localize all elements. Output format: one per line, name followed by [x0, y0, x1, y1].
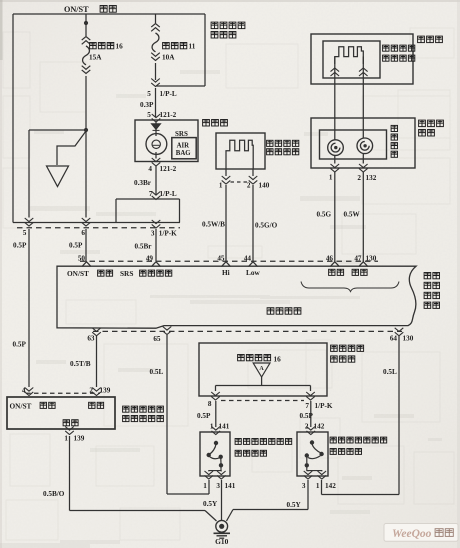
svg-text:5: 5 — [147, 90, 151, 98]
svg-text:121-2: 121-2 — [160, 111, 177, 119]
svg-text:0.5P: 0.5P — [300, 412, 314, 420]
svg-text:1: 1 — [210, 422, 214, 430]
svg-text:1: 1 — [316, 482, 320, 490]
svg-text:64: 64 — [390, 334, 398, 342]
svg-text:2: 2 — [357, 174, 361, 182]
svg-text:142: 142 — [325, 482, 336, 490]
svg-text:1: 1 — [64, 434, 68, 442]
svg-text:16: 16 — [116, 43, 124, 51]
svg-text:132: 132 — [366, 174, 377, 182]
svg-text:65: 65 — [153, 335, 161, 343]
svg-text:16: 16 — [274, 355, 282, 363]
svg-text:A: A — [259, 366, 264, 372]
svg-text:3: 3 — [302, 482, 306, 490]
svg-text:15A: 15A — [89, 54, 102, 62]
svg-text:4: 4 — [22, 387, 26, 395]
svg-text:1: 1 — [203, 482, 207, 490]
svg-text:121-2: 121-2 — [160, 165, 177, 173]
svg-text:6: 6 — [81, 229, 85, 237]
svg-text:0.5P: 0.5P — [69, 242, 83, 250]
svg-text:0.5P: 0.5P — [197, 412, 211, 420]
svg-text:8: 8 — [208, 400, 212, 408]
svg-text:2: 2 — [305, 422, 309, 430]
svg-text:0.5B/O: 0.5B/O — [43, 490, 65, 498]
svg-text:1: 1 — [329, 174, 333, 182]
svg-text:WeeQoo: WeeQoo — [392, 528, 432, 540]
svg-text:140: 140 — [259, 181, 270, 189]
svg-text:11: 11 — [189, 43, 196, 51]
svg-text:SRS: SRS — [175, 130, 188, 138]
svg-text:Low: Low — [246, 268, 261, 277]
svg-text:1/P-L: 1/P-L — [160, 90, 177, 98]
svg-text:2: 2 — [247, 181, 251, 189]
svg-text:141: 141 — [225, 482, 236, 490]
svg-text:0.5Y: 0.5Y — [287, 501, 302, 509]
svg-text:2: 2 — [89, 387, 93, 395]
svg-text:49: 49 — [146, 255, 154, 263]
svg-text:G10: G10 — [215, 537, 228, 546]
svg-text:0.5P: 0.5P — [13, 242, 27, 250]
svg-text:3: 3 — [216, 482, 220, 490]
svg-text:50: 50 — [78, 255, 86, 263]
svg-text:142: 142 — [314, 422, 325, 430]
svg-text:7: 7 — [305, 402, 309, 410]
svg-text:44: 44 — [244, 255, 252, 263]
svg-text:SRS: SRS — [120, 269, 133, 278]
svg-text:ON/ST: ON/ST — [64, 5, 89, 14]
svg-text:0.5Y: 0.5Y — [203, 500, 218, 508]
svg-text:1/P-K: 1/P-K — [159, 229, 177, 237]
svg-text:0.3P: 0.3P — [140, 101, 154, 109]
svg-text:0.5W: 0.5W — [344, 211, 361, 219]
svg-text:4: 4 — [148, 165, 152, 173]
svg-text:141: 141 — [219, 422, 230, 430]
svg-text:0.5P: 0.5P — [13, 340, 27, 348]
svg-text:0.3Br: 0.3Br — [134, 179, 152, 187]
svg-text:139: 139 — [100, 387, 111, 395]
svg-text:0.5Br: 0.5Br — [135, 243, 153, 251]
svg-text:3: 3 — [151, 229, 155, 237]
svg-text:1: 1 — [219, 181, 223, 189]
svg-text:1/P-K: 1/P-K — [315, 402, 333, 410]
svg-text:AIR: AIR — [177, 142, 190, 149]
svg-text:0.5G/O: 0.5G/O — [255, 222, 278, 230]
svg-text:7: 7 — [149, 190, 153, 198]
svg-text:47: 47 — [354, 255, 362, 263]
svg-text:5: 5 — [147, 111, 151, 119]
svg-text:5: 5 — [23, 229, 27, 237]
svg-text:0.5L: 0.5L — [383, 368, 397, 376]
svg-text:139: 139 — [74, 434, 85, 442]
svg-text:ON/ST: ON/ST — [67, 269, 89, 278]
svg-text:130: 130 — [403, 334, 414, 342]
svg-text:0.5L: 0.5L — [150, 368, 164, 376]
svg-text:0.5W/B: 0.5W/B — [202, 221, 225, 229]
svg-text:10A: 10A — [162, 54, 175, 62]
svg-text:46: 46 — [326, 255, 334, 263]
svg-text:ON/ST: ON/ST — [10, 401, 32, 410]
svg-text:Hi: Hi — [222, 268, 230, 277]
svg-text:0.5G: 0.5G — [317, 211, 332, 219]
svg-text:BAG: BAG — [176, 150, 191, 157]
svg-text:130: 130 — [366, 255, 377, 263]
svg-text:45: 45 — [217, 255, 225, 263]
svg-text:63: 63 — [87, 334, 95, 342]
svg-text:1/P-L: 1/P-L — [160, 190, 177, 198]
svg-text:0.5T/B: 0.5T/B — [70, 360, 91, 368]
